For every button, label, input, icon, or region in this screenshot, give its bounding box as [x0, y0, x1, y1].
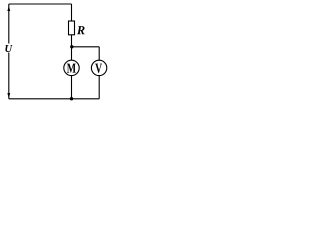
- junction dot node A (after resistor): [70, 45, 73, 48]
- wire left vertical lower (below U label): [8, 53, 10, 99]
- label U: [5, 45, 12, 52]
- voltage arrow U bottom arrowhead: [7, 93, 10, 98]
- motor M circle: [64, 60, 79, 75]
- wire junction to V branch horizontal: [72, 46, 100, 48]
- label V: [95, 64, 102, 73]
- voltage arrow U top arrowhead: [7, 6, 10, 11]
- wire top horizontal: [9, 3, 72, 5]
- wire right branch top (to resistor): [71, 4, 73, 21]
- wire resistor bottom to junction: [71, 35, 73, 47]
- wire left vertical upper (above U label): [8, 4, 10, 44]
- resistor R body: [69, 21, 75, 35]
- voltmeter V circle: [91, 60, 106, 75]
- wire bottom horizontal: [9, 98, 99, 100]
- wire motor bottom stub: [71, 76, 73, 99]
- wire voltmeter bottom stub: [98, 76, 100, 99]
- label M: [67, 64, 76, 73]
- wire V branch down to voltmeter: [98, 47, 100, 61]
- wire M branch down to motor: [71, 47, 73, 61]
- junction dot node B (bottom): [70, 97, 73, 100]
- label R: [77, 26, 85, 34]
